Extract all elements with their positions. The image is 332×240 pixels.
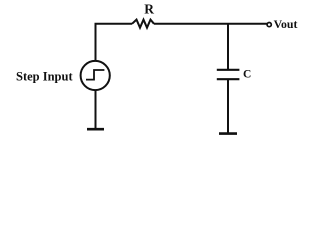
resistor R (zigzag) xyxy=(132,20,154,28)
svg-text:R: R xyxy=(144,2,154,17)
step waveform symbol inside source xyxy=(86,70,104,80)
svg-text:C: C xyxy=(243,69,251,81)
wire: source top terminal up and right to resistor left lead xyxy=(96,24,133,61)
wire: junction to output terminal xyxy=(228,23,267,25)
terminal: Vout open circle xyxy=(267,23,271,27)
ground (under capacitor) xyxy=(219,132,237,135)
wire: junction down to capacitor top plate xyxy=(227,24,229,70)
ground (under source) xyxy=(87,128,104,131)
voltage source U1: step input source circle xyxy=(81,61,110,90)
svg-text:Step Input: Step Input xyxy=(16,70,73,84)
svg-text:Vout: Vout xyxy=(274,17,298,31)
wire: source bottom terminal to ground xyxy=(95,90,97,129)
wire: capacitor bottom plate to ground xyxy=(227,79,229,133)
wire: resistor right lead to R-C junction xyxy=(154,23,228,25)
capacitor C bottom plate xyxy=(217,78,240,80)
capacitor C top plate xyxy=(217,69,240,71)
